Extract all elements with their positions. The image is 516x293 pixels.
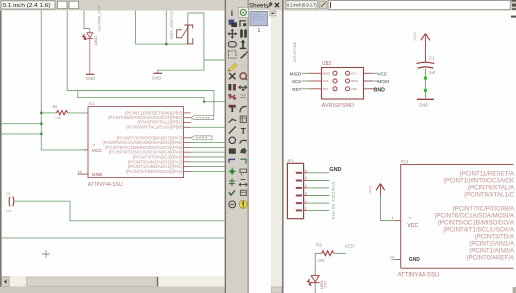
svg-text:(PCINT6/OC1A/SDA/MOSI/A: (PCINT6/OC1A/SDA/MOSI/A — [434, 212, 514, 219]
toolbar icon row: drc / warning — [229, 200, 247, 208]
svg-text:JP1: JP1 — [287, 158, 295, 163]
svg-text:R2: R2 — [53, 105, 58, 109]
wire VCC to IC1 pin 1 — [380, 216, 400, 220]
svg-text:14: 14 — [78, 170, 82, 174]
svg-text:1uf: 1uf — [429, 70, 436, 76]
connector JP1 — [287, 158, 304, 219]
JP1 pads — [296, 173, 302, 211]
svg-text:MISO: MISO — [323, 71, 331, 75]
svg-text:(PCINT8/XTAL1/C: (PCINT8/XTAL1/C — [464, 192, 514, 199]
svg-text:SCK: SCK — [292, 79, 302, 84]
wire R3 to LED2 — [315, 253, 322, 273]
svg-text:C1: C1 — [6, 192, 11, 196]
svg-text:i: i — [231, 8, 233, 18]
toolbar icon row: junction / label — [229, 168, 247, 176]
right window canvas — [284, 11, 516, 293]
left window horizontal scrollbar — [0, 277, 226, 293]
svg-text:C1: C1 — [429, 56, 435, 62]
wire from C1 to bottom bus — [14, 201, 225, 221]
wire bottom horizontal bus — [2, 237, 226, 239]
toolbar icon row: cut / paste — [228, 63, 247, 72]
svg-text:Sheets: Sheets — [249, 3, 268, 10]
wire switch loop — [158, 13, 225, 73]
svg-text:RST: RST — [292, 87, 301, 92]
svg-text:GND: GND — [373, 87, 385, 93]
svg-text:MOSI: MOSI — [351, 79, 359, 83]
svg-text:14: 14 — [390, 255, 394, 259]
svg-text:4: 4 — [305, 184, 307, 188]
connector U$2 AVRISPSMD box — [322, 61, 364, 109]
net label LED — [334, 242, 355, 253]
svg-text:(PCINT5/OC1B/MISO/DO/A: (PCINT5/OC1B/MISO/DO/A — [438, 219, 515, 226]
net label flag B — [191, 136, 212, 140]
svg-text:MOSI: MOSI — [377, 79, 389, 84]
ground GND2 (under switch) — [152, 73, 162, 80]
svg-text:RST: RST — [323, 87, 329, 91]
toolbar icon row: erc / errors — [229, 190, 247, 195]
svg-text:5MM: 5MM — [323, 281, 327, 288]
svg-text:+: + — [409, 215, 412, 220]
svg-text:R3: R3 — [316, 243, 322, 248]
toolbar column background — [226, 0, 249, 293]
svg-text:(PCINT4/T1/SCL/USCK/A: (PCINT4/T1/SCL/USCK/A — [443, 226, 515, 233]
wire LED drop — [84, 11, 90, 29]
capacitor C1 right — [417, 56, 437, 76]
svg-text:(PCINT10/INT0/OC3A/CK: (PCINT10/INT0/OC3A/CK — [443, 178, 515, 185]
origin cross marker — [42, 250, 50, 258]
U$2 inner pin names — [323, 71, 358, 91]
svg-text:499: 499 — [317, 258, 325, 263]
svg-text:VCC: VCC — [368, 185, 373, 194]
svg-text:(PCINT0/AREF/A: (PCINT0/AREF/A — [466, 254, 514, 261]
ground GND1 (under LED) — [86, 74, 95, 81]
svg-text:GND: GND — [329, 167, 341, 173]
toolbar icon row: pinswap / gateswap — [228, 84, 246, 91]
resistor R3 — [316, 243, 334, 263]
svg-text:AVRISPSMD: AVRISPSMD — [322, 103, 355, 109]
svg-text:ATTINY44-SSU: ATTINY44-SSU — [398, 273, 440, 279]
svg-text:1: 1 — [305, 206, 307, 210]
toolbar icon row: smash / miter — [229, 105, 247, 113]
net label GND on JP1 pin 6 — [329, 167, 341, 173]
svg-text:1: 1 — [392, 216, 394, 220]
svg-text:1uf: 1uf — [6, 209, 11, 213]
svg-text:(PCINT0/AREF/ADC0)(PA0): (PCINT0/AREF/ADC0)(PA0) — [126, 169, 183, 174]
U$2 pin stubs — [309, 73, 373, 89]
IC1 right pin 14 — [390, 255, 401, 259]
net labels VCC MOSI GND — [373, 71, 389, 93]
toolbar icon row: split / invoke — [229, 116, 247, 123]
toolbar icon row: name / value — [229, 94, 246, 99]
wires from JP1 — [307, 173, 329, 211]
svg-text:IC1: IC1 — [401, 159, 409, 165]
wire C1 to ground — [424, 69, 427, 99]
svg-text:5: 5 — [305, 177, 307, 181]
IC1 left pin texts PB group — [108, 110, 183, 129]
IC1 right pin texts PB group — [443, 171, 515, 199]
resistor R2 — [41, 105, 88, 120]
svg-text:2: 2 — [305, 199, 307, 203]
JP1 pin stubs and numbers — [304, 169, 308, 211]
LED D1 — [82, 29, 93, 74]
svg-text:GND: GND — [92, 172, 103, 178]
ground GND3 (under C1) — [417, 99, 434, 107]
wire rail B x=67 to IC top route — [67, 11, 214, 116]
svg-text:TX: TX — [331, 197, 336, 202]
toolbar icon row: circle / arc — [229, 137, 247, 144]
switch S1 — [169, 11, 193, 44]
net label flag A — [191, 116, 214, 120]
capacitor C1 left — [6, 192, 14, 213]
toolbar icon row: display / mark — [229, 20, 247, 27]
svg-text:(PCINT9/XTAL/A: (PCINT9/XTAL/A — [468, 185, 515, 192]
sheets panel list area — [249, 0, 284, 293]
vertical net labels on JP1 — [331, 182, 336, 220]
LED D2 — [307, 273, 327, 293]
IC1 left pin texts PA group — [102, 136, 183, 174]
IC1 right pin texts PA group — [434, 205, 514, 261]
svg-text:LED5MM_RED: LED5MM_RED — [98, 5, 102, 31]
toolbar icon row: info / show — [231, 7, 249, 18]
svg-text:SCK: SCK — [323, 79, 329, 83]
sheets scrollbar arrows — [270, 11, 282, 293]
toolbar icon row: mirror / rotate — [228, 40, 246, 49]
svg-text:LEDʹ: LEDʹ — [345, 242, 355, 249]
sheets panel header — [249, 0, 283, 10]
svg-text:1: 1 — [258, 28, 261, 34]
svg-text:(PCINT2/AIN1/A: (PCINT2/AIN1/A — [469, 240, 515, 247]
svg-text:(PCINT8/XTAL1/CLKI)(PB0): (PCINT8/XTAL1/CLKI)(PB0) — [126, 125, 183, 130]
svg-text:GND: GND — [351, 87, 357, 91]
right window edge marks — [511, 0, 516, 293]
toolbar icon row: rect / polygon — [229, 148, 247, 154]
toolbar icon row: group / change — [228, 51, 247, 59]
svg-text:3: 3 — [305, 192, 307, 196]
left window canvas — [0, 0, 225, 293]
svg-text:VCC: VCC — [412, 32, 417, 41]
svg-text:RX: RX — [331, 204, 336, 210]
net labels MISO SCK RST — [290, 71, 303, 92]
svg-text:VCC: VCC — [92, 148, 103, 154]
svg-text:(PCINT3/TD/A: (PCINT3/TD/A — [475, 233, 515, 240]
wire reset route — [78, 91, 225, 102]
svg-text:GND: GND — [152, 76, 161, 81]
svg-text:(PCINT1/AIN0/A: (PCINT1/AIN0/A — [469, 247, 515, 254]
toolbar icon row: attribute / dimension — [229, 178, 247, 186]
svg-text:+: + — [93, 142, 96, 147]
svg-text:GND: GND — [409, 257, 421, 263]
svg-text:T: T — [241, 126, 247, 136]
right window top toolbar — [284, 0, 516, 11]
svg-text:VCC: VCC — [351, 71, 357, 75]
svg-text:6MM_SWITCH: 6MM_SWITCH — [169, 11, 174, 39]
svg-text:GND: GND — [86, 76, 95, 81]
sheet thumbnail selected — [250, 11, 268, 33]
svg-text:6: 6 — [305, 169, 307, 173]
IC1 left right-side pin stubs — [184, 113, 191, 171]
svg-text:0.1 inch (0.9 2.7): 0.1 inch (0.9 2.7) — [287, 3, 317, 9]
toolbar icon row: delete / add — [229, 73, 247, 80]
svg-text:VCC: VCC — [407, 223, 418, 229]
LED name labels — [94, 5, 101, 45]
svg-text:(PCINT11/RESET/A: (PCINT11/RESET/A — [459, 171, 515, 178]
svg-text:VCC: VCC — [377, 71, 387, 76]
vertical name text left edge — [293, 41, 297, 62]
svg-text:ATTINY44-SSU: ATTINY44-SSU — [88, 182, 123, 188]
left window top toolbar — [0, 0, 226, 11]
wires to U$2 — [302, 73, 378, 89]
toolbar icon row: move / copy — [227, 29, 247, 39]
IC1 left pins VCC/GND — [78, 150, 89, 174]
svg-text:U$2: U$2 — [322, 61, 332, 67]
wire stubs from left edge — [2, 124, 42, 134]
supply VCC arrow top — [412, 32, 430, 62]
svg-text:(PCINT7/IC/P/OC0B/A: (PCINT7/IC/P/OC0B/A — [453, 205, 515, 212]
toolbar icon row: bus / net — [229, 159, 246, 163]
supply VCC arrow near IC1 — [368, 184, 385, 221]
toolbar icon row: wire / text — [229, 126, 247, 136]
svg-text:AVRISPSMD: AVRISPSMD — [293, 41, 297, 62]
wire vertical rail A x=41 — [41, 11, 83, 150]
svg-text:LED1: LED1 — [94, 36, 98, 46]
junction dots — [40, 43, 205, 136]
svg-text:GND: GND — [419, 102, 429, 107]
svg-text:0.1 inch (2.4 1.6): 0.1 inch (2.4 1.6) — [3, 3, 51, 9]
wire switch rails — [136, 11, 187, 45]
svg-text:MISO: MISO — [290, 71, 302, 76]
IC IC1 ATTINY44-SSU (right sheet) — [398, 159, 514, 279]
wires from IC1 right pins — [191, 127, 225, 171]
svg-text:IC1: IC1 — [89, 101, 96, 106]
svg-text:10k: 10k — [55, 116, 61, 120]
U$2 pads — [333, 71, 350, 91]
IC IC1 ATTINY44-SSU (left sheet) — [88, 101, 184, 188]
svg-text:RTS: RTS — [331, 211, 336, 219]
divider left canvas / toolbar — [225, 0, 226, 293]
